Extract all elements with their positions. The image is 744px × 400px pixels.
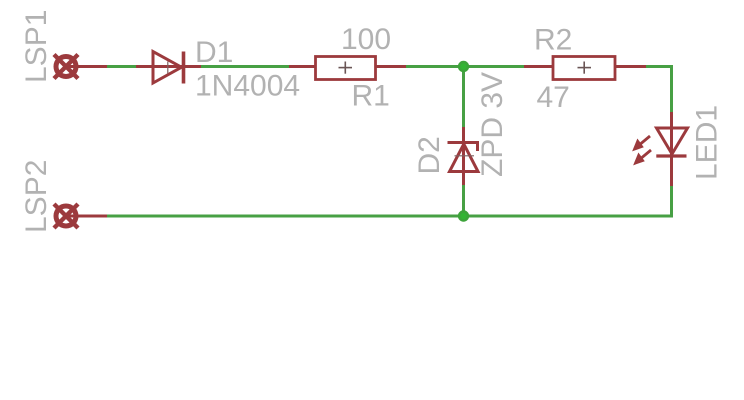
value 100 [341, 23, 391, 56]
svg-text:LSP2: LSP2 [20, 160, 53, 233]
wire [106, 65, 137, 68]
wire [464, 65, 525, 68]
label R2 [534, 24, 572, 57]
svg-text:47: 47 [537, 81, 570, 114]
wire [106, 185, 672, 216]
wire [462, 185, 465, 217]
solder pad LSP1 [54, 55, 78, 79]
light arrow 1 of LED1 [633, 136, 650, 151]
svg-text:100: 100 [341, 23, 391, 56]
diode D1 [136, 52, 201, 84]
label LSP2 [20, 160, 53, 233]
label D2 [413, 136, 446, 174]
value ZPD 3V [476, 72, 509, 177]
wire [462, 67, 465, 129]
label D1 [195, 36, 233, 69]
label LED1 [691, 105, 724, 180]
svg-text:D2: D2 [413, 136, 446, 174]
label R1 [352, 80, 390, 113]
svg-text:R1: R1 [352, 80, 390, 113]
light arrow 2 of LED1 [634, 150, 651, 165]
resistor R2 [524, 57, 646, 80]
solder pad LSP2 [54, 204, 78, 228]
wire [406, 65, 464, 68]
wire [646, 67, 672, 114]
junction [458, 61, 469, 72]
zener diode D2 [448, 127, 479, 185]
svg-text:LSP1: LSP1 [20, 10, 53, 83]
pin of LSP1 [66, 65, 107, 68]
svg-text:D1: D1 [195, 36, 233, 69]
svg-text:1N4004: 1N4004 [195, 70, 300, 103]
value 1N4004 [195, 70, 300, 103]
wire [200, 65, 289, 68]
resistor R1 [289, 57, 406, 80]
svg-text:ZPD 3V: ZPD 3V [476, 72, 509, 177]
LED LED1 [656, 112, 687, 186]
junction [458, 210, 469, 221]
svg-text:R2: R2 [534, 24, 572, 57]
pin of LSP2 [66, 215, 107, 218]
svg-text:LED1: LED1 [691, 105, 724, 180]
value 47 [537, 81, 570, 114]
label LSP1 [20, 10, 53, 83]
